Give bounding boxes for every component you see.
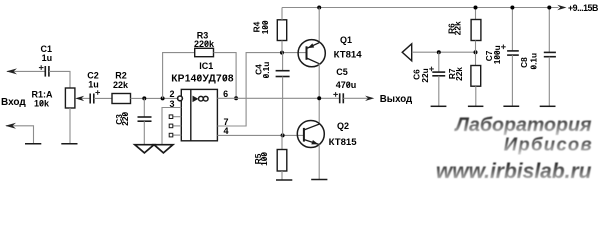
junction dot C6 <box>437 50 441 54</box>
op symbol infinity <box>199 96 204 101</box>
input triangle symbol <box>402 44 412 61</box>
resistor R6 <box>471 20 481 41</box>
ground bar under C7 <box>503 105 519 107</box>
svg-text:22k: 22k <box>453 21 463 35</box>
R1 wiper arrow <box>79 97 90 99</box>
rail arrow <box>557 5 566 10</box>
wire R5 bottom <box>281 171 283 180</box>
resistor R5 <box>277 150 287 172</box>
top power rail <box>282 7 559 9</box>
node line triangle to R7 <box>412 51 476 53</box>
C6 plus <box>429 67 434 72</box>
resistor R3 <box>195 48 214 56</box>
svg-text:+9...15В: +9...15В <box>568 3 598 13</box>
pin 7 wire <box>217 53 306 126</box>
NC stub 3 <box>173 134 182 136</box>
wire C4 bottom to node B <box>282 77 284 136</box>
resistor R4 <box>277 20 286 41</box>
svg-text:3: 3 <box>169 99 174 109</box>
wire R5 top <box>281 135 283 149</box>
wire C2 to R2 <box>94 97 112 99</box>
svg-text:Вход: Вход <box>1 97 26 108</box>
input arrow head bottom <box>5 123 16 129</box>
resistor R2 <box>112 94 131 104</box>
junction dot R6 R7 <box>474 50 478 54</box>
junction dot rail Q1 <box>317 6 321 10</box>
wire R4 bottom to node A <box>281 41 283 53</box>
C2 plus <box>95 90 100 95</box>
C5 plus <box>333 92 338 97</box>
capacitor C1 <box>45 66 49 77</box>
wire R6 top <box>475 8 477 20</box>
junction dot pin6 feedback <box>234 96 238 100</box>
slashed zeros overlay <box>40 21 536 160</box>
NC stub 2 <box>173 125 182 127</box>
wire C7 top <box>511 8 513 51</box>
capacitor C7 <box>507 51 519 55</box>
junction dot rail C8 <box>547 6 551 10</box>
wire C8 top <box>548 8 550 53</box>
junction dot node A <box>280 51 284 55</box>
feedback wire left riser <box>163 53 195 99</box>
transistor Q1 <box>298 40 325 67</box>
ground bar under C6 <box>431 105 447 107</box>
ground bar under Q2 <box>311 179 327 181</box>
svg-text:C8: C8 <box>519 57 529 68</box>
ground bar under R1 <box>61 143 77 145</box>
svg-text:4: 4 <box>223 126 228 136</box>
svg-text:IC1: IC1 <box>199 61 213 71</box>
IC1 inner divider <box>190 89 192 140</box>
wire C3 bottom <box>143 121 145 145</box>
ground triangle under C3 <box>135 145 154 153</box>
svg-text:Ирбисов: Ирбисов <box>504 133 593 154</box>
svg-text:1u: 1u <box>42 53 53 63</box>
wire C6 top <box>438 52 440 72</box>
svg-text:www.irbislab.ru: www.irbislab.ru <box>436 160 592 183</box>
capacitor C3 <box>138 117 152 121</box>
capacitor C2 <box>90 94 94 104</box>
potentiometer R1:A <box>65 88 75 108</box>
wire rail to Q1 emitter <box>318 8 320 43</box>
svg-text:220k: 220k <box>194 39 215 49</box>
pin 6 wire to C5 <box>217 97 339 99</box>
junction dot output <box>317 96 321 100</box>
svg-text:C5: C5 <box>336 67 348 77</box>
output arrow <box>365 96 374 101</box>
svg-text:Q2: Q2 <box>337 121 349 131</box>
feedback wire right drop <box>214 53 237 99</box>
junction dot feedback <box>161 96 165 100</box>
svg-text:КТ814: КТ814 <box>334 49 363 60</box>
wire R4 top to rail <box>281 8 283 20</box>
transistor Q2 <box>297 121 324 148</box>
junction dot rail C7 <box>510 6 514 10</box>
ground bar bottom-left <box>25 143 41 145</box>
svg-text:100u: 100u <box>492 45 502 64</box>
wire node A to C4 <box>282 53 284 71</box>
svg-text:Выход: Выход <box>380 94 412 105</box>
wire R7 top <box>475 52 477 65</box>
svg-text:22u: 22u <box>420 68 430 82</box>
ground triangle under pin3 <box>154 145 173 153</box>
wire C3 top <box>143 98 145 117</box>
svg-text:22k: 22k <box>454 67 464 81</box>
C1 plus <box>39 65 44 70</box>
pin 4 wire <box>217 134 304 136</box>
wire input bottom arrow <box>6 126 34 144</box>
svg-text:R2: R2 <box>115 71 127 81</box>
junction dot C3 <box>142 96 146 100</box>
svg-text:КТ815: КТ815 <box>329 137 358 148</box>
input arrow head top <box>6 68 17 74</box>
capacitor C4 <box>276 71 290 77</box>
wire R1 bottom to ground <box>69 108 71 144</box>
svg-text:Q1: Q1 <box>340 35 352 45</box>
svg-text:22k: 22k <box>113 80 129 90</box>
wire C6 bottom <box>438 76 440 106</box>
ground bar under R7 <box>468 105 484 107</box>
wire Q1 collector to Q2 collector <box>318 64 320 124</box>
capacitor C6 <box>432 72 445 76</box>
capacitor C8 <box>544 52 556 56</box>
wire C7 bottom <box>511 55 513 106</box>
ground bar under R5 <box>276 179 292 181</box>
op-amp IC1 box <box>181 89 217 140</box>
wire C1 to R1 top <box>49 71 70 88</box>
svg-text:6: 6 <box>223 89 228 99</box>
wire R7 bottom <box>475 86 477 106</box>
wire C8 bottom <box>548 57 550 106</box>
wire input top arrow line <box>7 70 45 72</box>
pin 3 wire <box>162 108 181 145</box>
junction dot node B <box>281 133 285 137</box>
junction dot rail R6 <box>474 6 478 10</box>
svg-text:10k: 10k <box>34 99 50 109</box>
svg-text:470u: 470u <box>336 80 357 90</box>
C7 plus <box>501 45 506 50</box>
pin 2 inversion circle <box>178 96 183 101</box>
ground bar under C8 <box>540 105 556 107</box>
op symbol triangle <box>193 97 197 102</box>
svg-text:220: 220 <box>120 111 130 125</box>
wire R2 to pin2 <box>131 97 178 99</box>
svg-text:2: 2 <box>169 89 174 99</box>
resistor R7 <box>471 66 481 87</box>
NC stub 1 <box>173 116 182 118</box>
wire Q2 emitter to ground <box>318 145 320 180</box>
capacitor C5 <box>340 93 344 103</box>
svg-text:1u: 1u <box>88 80 99 90</box>
wire R6 bottom to node <box>475 41 477 53</box>
wire C5 to output arrow <box>343 97 368 99</box>
